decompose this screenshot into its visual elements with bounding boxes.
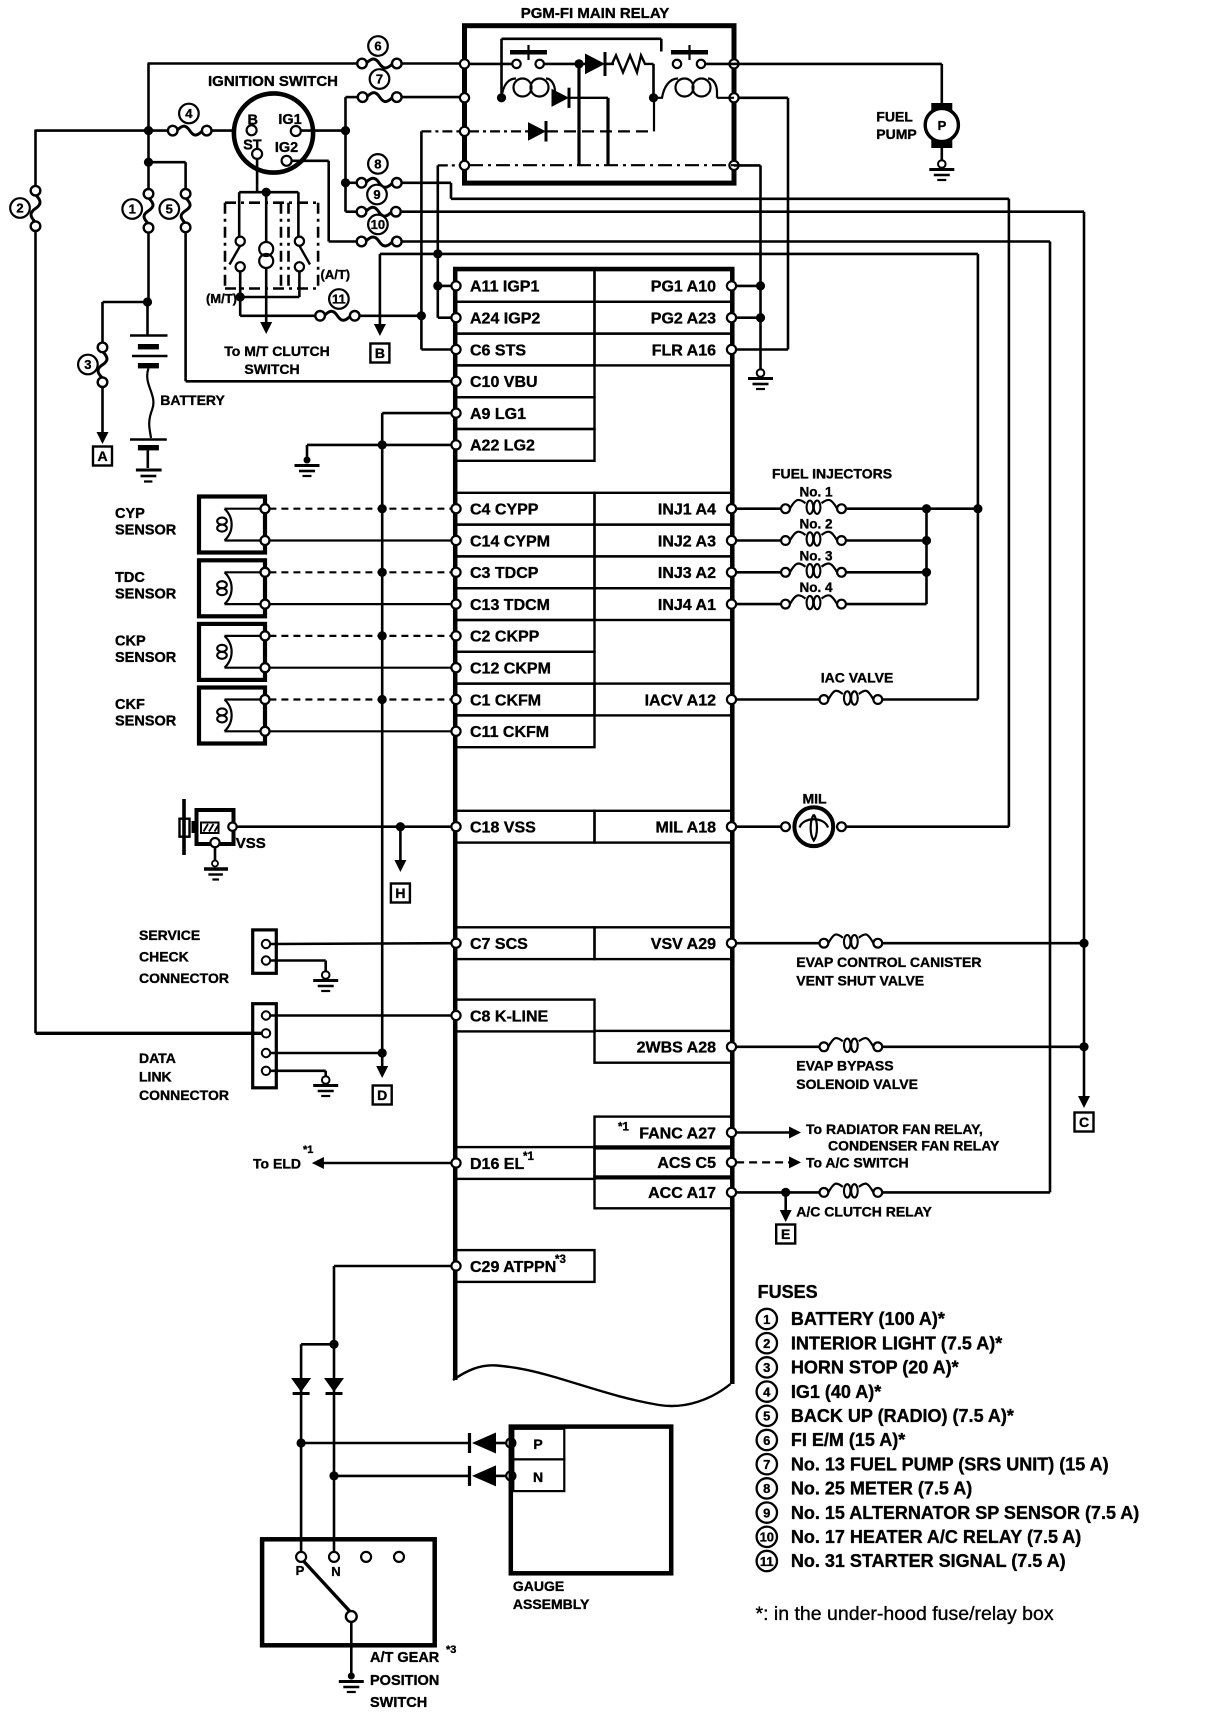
svg-text:IG2: IG2: [275, 140, 298, 156]
svg-text:CKF: CKF: [115, 697, 145, 713]
svg-text:INJ2 A3: INJ2 A3: [658, 533, 716, 550]
svg-text:10: 10: [760, 1530, 774, 1545]
svg-text:SERVICE: SERVICE: [139, 927, 200, 943]
svg-text:TDC: TDC: [115, 570, 145, 586]
svg-text:SOLENOID VALVE: SOLENOID VALVE: [796, 1076, 918, 1092]
svg-text:C14 CYPM: C14 CYPM: [470, 533, 550, 550]
svg-text:N: N: [533, 1469, 543, 1485]
svg-text:C1 CKFM: C1 CKFM: [470, 692, 541, 709]
svg-text:4: 4: [185, 106, 193, 121]
svg-text:C: C: [1079, 1114, 1089, 1130]
svg-text:B: B: [375, 345, 385, 361]
svg-text:A/T GEAR: A/T GEAR: [370, 1650, 440, 1666]
svg-text:(M/T): (M/T): [206, 291, 237, 306]
svg-text:SENSOR: SENSOR: [115, 714, 177, 730]
svg-text:FUEL: FUEL: [876, 109, 913, 125]
svg-text:GAUGE: GAUGE: [513, 1578, 564, 1594]
svg-text:INJ1 A4: INJ1 A4: [658, 502, 716, 519]
svg-text:LINK: LINK: [139, 1069, 172, 1085]
svg-text:4: 4: [763, 1384, 771, 1399]
svg-text:D16 EL: D16 EL: [470, 1156, 524, 1173]
svg-text:E: E: [781, 1226, 790, 1242]
svg-text:To ELD: To ELD: [253, 1156, 301, 1172]
svg-text:To M/T CLUTCH: To M/T CLUTCH: [224, 343, 330, 359]
svg-text:INTERIOR LIGHT (7.5 A)*: INTERIOR LIGHT (7.5 A)*: [791, 1333, 1002, 1353]
svg-text:C18 VSS: C18 VSS: [470, 820, 536, 837]
svg-text:FI E/M (15 A)*: FI E/M (15 A)*: [791, 1430, 905, 1450]
svg-text:C2 CKPP: C2 CKPP: [470, 629, 540, 646]
svg-text:ST: ST: [243, 138, 262, 154]
svg-text:SWITCH: SWITCH: [244, 361, 299, 377]
svg-text:SWITCH: SWITCH: [370, 1695, 427, 1710]
svg-text:MIL: MIL: [802, 791, 827, 807]
svg-text:P: P: [296, 1563, 305, 1578]
svg-text:9: 9: [373, 187, 380, 202]
svg-text:To RADIATOR FAN RELAY,: To RADIATOR FAN RELAY,: [806, 1121, 983, 1137]
svg-text:BATTERY (100 A)*: BATTERY (100 A)*: [791, 1309, 945, 1329]
svg-text:*: in the under-hood fuse/rela: *: in the under-hood fuse/relay box: [756, 1603, 1054, 1625]
svg-text:FLR A16: FLR A16: [652, 342, 716, 359]
svg-text:IG1: IG1: [278, 112, 301, 128]
svg-text:ASSEMBLY: ASSEMBLY: [513, 1596, 590, 1612]
svg-text:2WBS A28: 2WBS A28: [637, 1040, 717, 1057]
svg-text:BACK UP (RADIO) (7.5 A)*: BACK UP (RADIO) (7.5 A)*: [791, 1406, 1014, 1426]
svg-text:ACC A17: ACC A17: [648, 1185, 716, 1202]
svg-text:C8 K-LINE: C8 K-LINE: [470, 1008, 549, 1025]
svg-text:5: 5: [763, 1409, 770, 1424]
svg-text:INJ4 A1: INJ4 A1: [658, 597, 716, 614]
svg-text:6: 6: [374, 39, 381, 54]
svg-text:No. 1: No. 1: [799, 485, 832, 500]
svg-text:FUEL INJECTORS: FUEL INJECTORS: [772, 466, 892, 482]
svg-text:EVAP CONTROL CANISTER: EVAP CONTROL CANISTER: [796, 954, 981, 970]
svg-text:CONNECTOR: CONNECTOR: [139, 1087, 229, 1103]
svg-text:IACV A12: IACV A12: [645, 692, 717, 709]
svg-text:SENSOR: SENSOR: [115, 523, 177, 539]
svg-text:VSS: VSS: [236, 835, 266, 852]
svg-text:5: 5: [166, 202, 173, 217]
svg-text:DATA: DATA: [139, 1050, 176, 1066]
svg-text:No. 25 METER (7.5 A): No. 25 METER (7.5 A): [791, 1479, 972, 1499]
svg-text:INJ3 A2: INJ3 A2: [658, 565, 716, 582]
svg-text:VSV A29: VSV A29: [651, 936, 716, 953]
svg-text:C7 SCS: C7 SCS: [470, 936, 528, 953]
svg-text:1: 1: [129, 202, 136, 217]
svg-text:9: 9: [763, 1505, 770, 1520]
svg-text:*1: *1: [523, 1151, 534, 1163]
svg-text:C29 ATPPN: C29 ATPPN: [470, 1259, 556, 1276]
svg-text:IG1 (40 A)*: IG1 (40 A)*: [791, 1382, 881, 1402]
svg-text:H: H: [395, 885, 405, 901]
svg-text:N: N: [331, 1564, 340, 1579]
svg-text:7: 7: [376, 72, 383, 87]
svg-text:C12 CKPM: C12 CKPM: [470, 661, 551, 678]
svg-text:SENSOR: SENSOR: [115, 650, 177, 666]
svg-text:A9 LG1: A9 LG1: [470, 406, 526, 423]
svg-text:D: D: [377, 1087, 387, 1103]
svg-text:C3 TDCP: C3 TDCP: [470, 565, 539, 582]
svg-text:2: 2: [763, 1336, 770, 1351]
svg-text:PGM-FI MAIN RELAY: PGM-FI MAIN RELAY: [521, 5, 670, 22]
svg-text:6: 6: [763, 1433, 770, 1448]
svg-text:*1: *1: [303, 1144, 313, 1156]
svg-text:PG2 A23: PG2 A23: [651, 311, 716, 328]
svg-text:C10 VBU: C10 VBU: [470, 374, 538, 391]
svg-text:11: 11: [760, 1554, 774, 1569]
svg-text:FANC A27: FANC A27: [639, 1125, 716, 1142]
svg-text:FUSES: FUSES: [758, 1282, 818, 1302]
svg-text:3: 3: [763, 1360, 770, 1375]
svg-text:7: 7: [763, 1457, 770, 1472]
svg-text:CONDENSER FAN RELAY: CONDENSER FAN RELAY: [828, 1138, 1000, 1154]
svg-text:A: A: [97, 448, 107, 464]
svg-text:No. 4: No. 4: [799, 580, 832, 595]
svg-text:8: 8: [374, 157, 381, 172]
svg-text:*1: *1: [618, 1122, 629, 1134]
svg-text:*3: *3: [555, 1254, 566, 1266]
svg-text:C6 STS: C6 STS: [470, 342, 526, 359]
svg-text:VENT SHUT VALVE: VENT SHUT VALVE: [796, 973, 924, 989]
svg-text:A22 LG2: A22 LG2: [470, 438, 535, 455]
svg-text:*3: *3: [446, 1644, 456, 1656]
svg-text:PG1 A10: PG1 A10: [651, 279, 716, 296]
svg-text:EVAP BYPASS: EVAP BYPASS: [796, 1058, 893, 1074]
svg-text:8: 8: [763, 1481, 770, 1496]
svg-text:IAC VALVE: IAC VALVE: [821, 670, 894, 686]
svg-text:BATTERY: BATTERY: [160, 392, 225, 408]
svg-text:ACS C5: ACS C5: [657, 1155, 716, 1172]
svg-text:A11 IGP1: A11 IGP1: [470, 279, 539, 296]
svg-text:PUMP: PUMP: [876, 126, 916, 142]
svg-text:2: 2: [16, 201, 23, 216]
svg-text:11: 11: [332, 292, 346, 307]
svg-text:C11 CKFM: C11 CKFM: [470, 724, 549, 741]
svg-text:HORN STOP (20 A)*: HORN STOP (20 A)*: [791, 1358, 959, 1378]
svg-text:P: P: [938, 118, 947, 133]
svg-text:No. 17 HEATER A/C RELAY (7.5 A: No. 17 HEATER A/C RELAY (7.5 A): [791, 1527, 1081, 1547]
svg-text:SENSOR: SENSOR: [115, 586, 177, 602]
svg-text:No. 31 STARTER SIGNAL (7.5 A): No. 31 STARTER SIGNAL (7.5 A): [791, 1551, 1066, 1571]
svg-text:No. 2: No. 2: [799, 517, 832, 532]
svg-text:To A/C SWITCH: To A/C SWITCH: [806, 1154, 909, 1170]
svg-text:B: B: [248, 113, 258, 129]
svg-text:CKP: CKP: [115, 633, 146, 649]
svg-text:CYP: CYP: [115, 506, 145, 522]
svg-text:No. 13 FUEL PUMP (SRS UNIT) (1: No. 13 FUEL PUMP (SRS UNIT) (15 A): [791, 1454, 1109, 1474]
svg-text:MIL A18: MIL A18: [656, 820, 717, 837]
svg-text:IGNITION SWITCH: IGNITION SWITCH: [208, 73, 338, 90]
svg-text:C13 TDCM: C13 TDCM: [470, 597, 550, 614]
svg-text:10: 10: [371, 217, 385, 232]
svg-text:No. 15 ALTERNATOR SP SENSOR (7: No. 15 ALTERNATOR SP SENSOR (7.5 A): [791, 1503, 1139, 1523]
svg-text:No. 3: No. 3: [799, 548, 832, 563]
svg-text:A/C CLUTCH RELAY: A/C CLUTCH RELAY: [796, 1204, 932, 1220]
svg-text:P: P: [533, 1436, 542, 1452]
svg-text:(A/T): (A/T): [321, 267, 351, 282]
svg-text:C4 CYPP: C4 CYPP: [470, 502, 539, 519]
svg-text:3: 3: [84, 357, 91, 372]
svg-text:CHECK: CHECK: [139, 949, 189, 965]
svg-text:CONNECTOR: CONNECTOR: [139, 970, 229, 986]
svg-text:POSITION: POSITION: [370, 1673, 439, 1689]
svg-text:1: 1: [763, 1312, 770, 1327]
svg-text:A24 IGP2: A24 IGP2: [470, 311, 540, 328]
